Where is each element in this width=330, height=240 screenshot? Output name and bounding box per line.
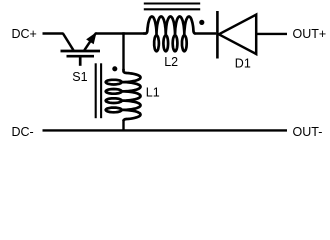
diode D1 <box>217 11 256 59</box>
svg-text:DC+: DC+ <box>12 27 37 41</box>
inductor L1 (shunt winding) <box>106 69 141 121</box>
transformer core line (left, outer) <box>100 63 102 118</box>
transformer core line (left, inner) <box>95 63 97 118</box>
transistor S1 (IGBT switch) <box>61 33 101 65</box>
polarity dot of L2 <box>199 20 204 25</box>
wire: tap node to L2 <box>122 32 143 34</box>
polarity dot of L1 <box>112 66 117 71</box>
wire: L1 bottom to DC- rail <box>122 121 124 131</box>
svg-text:OUT+: OUT+ <box>293 27 327 41</box>
wire: DC+ input to S1 collector <box>43 32 64 34</box>
svg-text:DC-: DC- <box>12 125 34 139</box>
wire: tap node down to L1 <box>122 34 124 70</box>
inductor L2 (series winding) <box>143 17 195 52</box>
transformer core line (top, lower) <box>144 8 200 10</box>
svg-text:D1: D1 <box>235 56 251 70</box>
wire: D1 anode to OUT+ <box>257 33 288 35</box>
wire: L2 to D1 cathode <box>195 32 216 34</box>
svg-text:OUT-: OUT- <box>293 125 323 139</box>
wire: S1 emitter to tap node <box>95 32 125 34</box>
wire: DC- to OUT- bottom rail <box>43 129 288 131</box>
svg-text:L2: L2 <box>164 55 178 69</box>
svg-text:S1: S1 <box>72 70 87 84</box>
svg-text:L1: L1 <box>146 85 160 99</box>
transformer core line (top, upper) <box>144 2 200 4</box>
